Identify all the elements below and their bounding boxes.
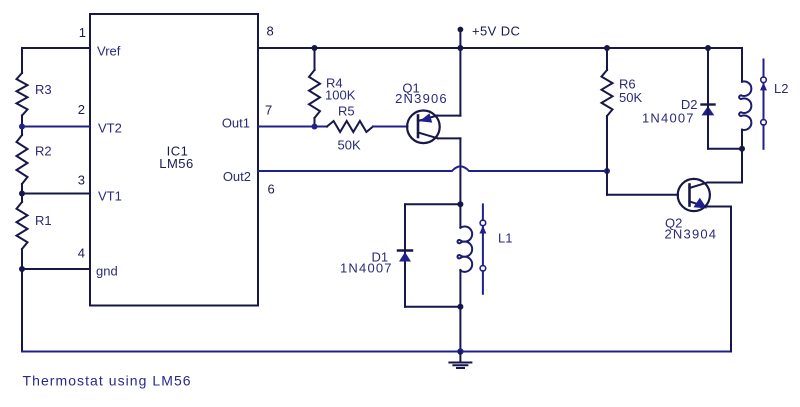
diode D1 cathode bar [398,249,412,251]
wire Q2 emitter down to ground rail [730,207,732,352]
diode D2 triangle [702,106,715,115]
node ground rail junction [457,348,463,354]
svg-text:2: 2 [78,102,85,117]
resistor R3 [17,73,28,116]
svg-text:1: 1 [79,25,86,40]
resistor R1 [17,202,28,249]
svg-text:100K: 100K [325,88,356,103]
wire D2 bottom horizontal [708,148,742,150]
node D2 top junction [705,45,711,51]
svg-text:2N3904: 2N3904 [665,227,718,242]
node R6 top junction [604,45,610,51]
wire R6 top [606,48,608,70]
wire R6 bottom to Out2 and Q2 base [606,116,608,195]
svg-text:R2: R2 [35,144,52,159]
wire L2 top corner [741,48,743,82]
wire R2 to VT1 node [21,184,23,202]
wire bottom ground rail [22,351,731,353]
node D1/L1 bottom junction [457,304,463,310]
node D2/L2/collector junction [739,146,745,152]
node +5V DC terminal [458,27,464,33]
wire R4 top [314,48,316,70]
svg-text:2N3906: 2N3906 [395,91,448,106]
svg-text:3: 3 [78,173,85,188]
wire L2 bottom [741,130,743,149]
node VT1 junction [19,191,25,197]
svg-text:L1: L1 [498,231,512,246]
inductor L1 coil [457,226,472,271]
svg-text:Out1: Out1 [222,116,250,131]
svg-text:50K: 50K [619,90,642,105]
ground symbol [459,352,461,362]
node D1/L1 top junction [457,201,463,207]
svg-text:8: 8 [267,24,274,39]
svg-text:Out2: Out2 [223,169,251,184]
svg-text:R3: R3 [35,82,52,97]
inductor L2 coil [739,81,751,130]
Q1 emitter diagonal [418,116,437,121]
node R4 top junction [312,45,318,51]
wire Q1 emitter stub [437,115,460,117]
relay contact L1 (armature with circles) [482,204,484,220]
Q2 emitter arrow (NPN points out) [694,198,708,209]
wire L1 to ground rail [459,307,461,352]
svg-text:Vref: Vref [97,44,121,59]
wire L1 top [459,204,461,227]
wire D1 left vertical [404,204,406,306]
wire pin1 Vref [22,47,90,49]
node Out2/R6 junction [604,168,610,174]
Q1 emitter arrow (PNP points to base) [420,113,433,122]
wire D2 vertical bottom [707,106,709,149]
Q2 collector diagonal [690,183,708,189]
wire +5V vertical to Q1 emitter [459,30,461,116]
diode D2 cathode bar [702,103,715,105]
svg-text:gnd: gnd [96,264,118,279]
svg-text:VT1: VT1 [98,189,122,204]
svg-text:L2: L2 [774,81,788,96]
node VT2 junction [19,124,25,130]
resistor R5 [327,121,373,132]
svg-text:R1: R1 [35,213,52,228]
Q1 collector diagonal [418,133,438,139]
wire pin6 Out2 with hop over collector wire [258,166,607,171]
node R4/pin7 junction [312,124,318,130]
Q1 base bar [417,116,420,138]
wire R3 to VT2 node [21,116,23,136]
svg-text:VT2: VT2 [98,121,122,136]
wire D2 vertical top [707,48,709,104]
resistor R4 [309,70,320,118]
svg-text:1N4007: 1N4007 [340,261,393,276]
svg-text:R5: R5 [338,104,355,119]
svg-text:7: 7 [265,103,272,118]
svg-text:4: 4 [78,246,85,261]
wire Q1 collector stub [438,137,460,139]
wire Q2 emitter stub [705,206,731,208]
wire pin7 Out1 [258,126,327,128]
svg-text:50K: 50K [338,138,361,153]
wire L1 bottom [459,270,461,307]
wire pin4 gnd [22,268,90,270]
transistor Q2 2N3904 [678,179,710,211]
wire R5 to Q1 base [373,126,408,128]
relay contact L2 (armature with circles) [763,60,765,78]
node +5V rail junction [457,45,463,51]
wire Q1 collector down to L1 [459,138,461,204]
diode D1 triangle [399,252,411,262]
wire Q2 collector up to D2/L2 [741,149,743,183]
node gnd junction [19,266,25,272]
wire pin8 top rail [258,47,742,49]
wire R1 to gnd node [21,249,23,269]
wire left rail top segment [21,48,23,73]
svg-text:+5V DC: +5V DC [472,24,520,39]
transistor Q1 2N3906 [407,111,440,144]
Q2 emitter diagonal [690,202,706,207]
wire D1 top horizontal [405,203,460,205]
IC1 LM56 box [90,14,258,306]
resistor R2 [17,135,28,184]
wire pin3 VT1 [22,193,90,195]
wire Q2 collector stub [708,182,743,184]
wire Q2 base horizontal [607,194,678,196]
wire R4 bottom [314,118,316,127]
wire pin2 VT2 [22,126,90,128]
resistor R6 [602,70,613,116]
Q2 base bar [688,185,691,206]
svg-text:6: 6 [268,182,275,197]
svg-text:1N4007: 1N4007 [642,111,695,126]
svg-text:Thermostat using LM56: Thermostat using LM56 [23,373,192,389]
wire D1 bottom horizontal [405,306,460,308]
wire left rail to bottom [21,269,23,352]
svg-text:LM56: LM56 [159,156,194,171]
